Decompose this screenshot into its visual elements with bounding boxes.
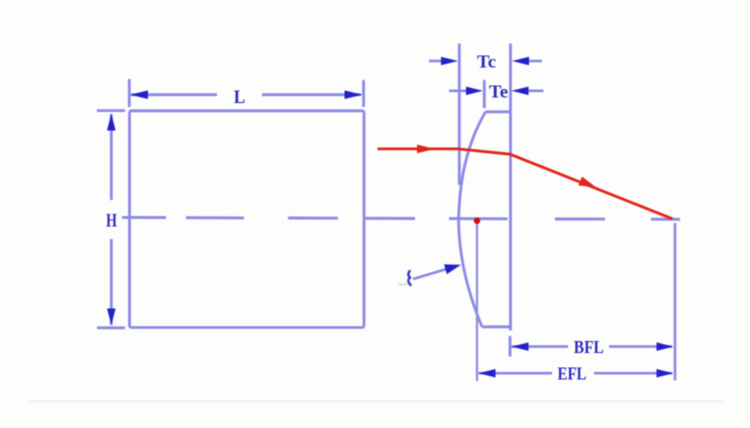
svg-text:Tc: Tc xyxy=(477,51,496,71)
svg-text:BFL: BFL xyxy=(574,337,604,357)
svg-text:H: H xyxy=(106,210,117,231)
svg-text:L: L xyxy=(234,87,246,108)
svg-text:Te: Te xyxy=(489,82,508,102)
svg-text:EFL: EFL xyxy=(558,364,587,384)
